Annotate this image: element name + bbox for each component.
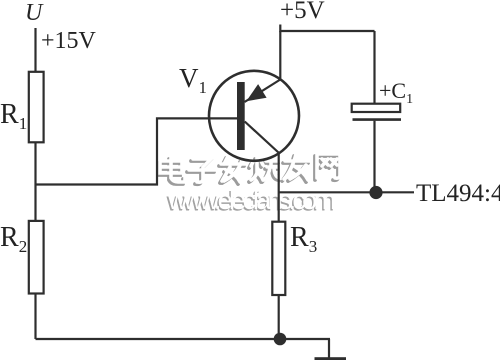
junction dot bottom rail: [274, 333, 287, 346]
wire: collector down to R3: [278, 153, 280, 223]
wire: R1 bottom to R2 top: [34, 142, 36, 221]
wire: C1 to TL494 node: [373, 121, 375, 193]
wire: top rail down to C1: [373, 31, 375, 104]
junction dot TL494 node: [369, 186, 382, 199]
wire: base branch from R1-R2 node: [36, 118, 238, 184]
wire: +5V stub and top rail: [280, 25, 374, 32]
wire: R3 bottom to bottom rail: [278, 295, 280, 339]
svg-text:TL494:4: TL494:4: [416, 180, 500, 207]
wire: bottom rail to ground: [328, 339, 330, 358]
resistor R1: [29, 72, 44, 143]
transistor V1 circle: [209, 71, 299, 161]
svg-text:+15V: +15V: [41, 28, 97, 54]
svg-text:www.elecfans.com: www.elecfans.com: [167, 185, 336, 215]
resistor R2: [29, 221, 44, 294]
capacitor C1 top plate: [352, 104, 401, 112]
transistor V1 emitter arrow (PNP): [246, 84, 266, 101]
wire: collector node to TL494 pin: [279, 191, 414, 193]
ground: [315, 357, 347, 360]
svg-text:+5V: +5V: [280, 0, 325, 24]
transistor V1 collector line: [245, 122, 279, 154]
capacitor C1 bottom plate: [353, 118, 402, 121]
wire: bottom rail: [36, 338, 331, 340]
wire: R2 bottom to bottom rail: [34, 294, 36, 340]
transistor V1 base bar: [237, 82, 245, 150]
svg-text:U: U: [25, 0, 44, 26]
resistor R3: [272, 222, 285, 295]
wire: U supply to R1 top: [34, 28, 36, 72]
wire: emitter up to top rail: [279, 31, 281, 81]
transistor V1 emitter line: [245, 80, 281, 103]
